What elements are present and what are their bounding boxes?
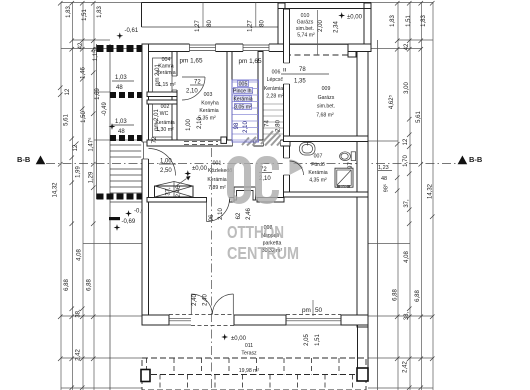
svg-text:pm 1,65: pm 1,65 [179, 58, 203, 65]
watermark OC logo [231, 160, 248, 201]
tick marks left [58, 1, 96, 390]
svg-text:14,32: 14,32 [428, 183, 434, 199]
svg-text:2,46: 2,46 [176, 185, 182, 197]
svg-text:CENTRUM: CENTRUM [227, 243, 299, 263]
svg-text:97: 97 [348, 162, 354, 169]
terrace paving joints row 1 [147, 358, 340, 375]
stair direction arrow [176, 179, 187, 187]
svg-text:2,10: 2,10 [218, 208, 224, 220]
svg-text:1,51: 1,51 [315, 334, 321, 346]
svg-text:2,05: 2,05 [304, 334, 310, 346]
svg-text:6,88: 6,88 [415, 290, 421, 302]
svg-text:Kerámia: Kerámia [233, 96, 252, 102]
wall end block at Konyha corner [221, 137, 227, 143]
window dim line 1 (1,27/80) [202, 3, 204, 28]
svg-text:2,34: 2,34 [334, 21, 340, 33]
svg-text:Kerámia: Kerámia [199, 108, 218, 114]
garage door dashed (sectional door above) [285, 54, 348, 56]
svg-text:96: 96 [209, 214, 215, 221]
extension lines right [371, 2, 433, 4]
Kamra bottom partition [147, 92, 177, 97]
svg-text:98: 98 [234, 122, 240, 129]
svg-text:1,83: 1,83 [66, 6, 72, 18]
svg-text:3,00: 3,00 [404, 82, 410, 94]
svg-text:007: 007 [314, 154, 323, 160]
svg-text:80: 80 [260, 20, 266, 27]
svg-text:pm 2,01: pm 2,01 [155, 64, 161, 86]
svg-text:38,: 38, [76, 309, 82, 318]
window opening top 2 [243, 43, 269, 52]
svg-text:2,28 m²: 2,28 m² [266, 94, 284, 100]
garage 009 door opening in top wall [286, 44, 348, 52]
tick marks right [395, 1, 435, 390]
svg-text:001: 001 [213, 161, 222, 167]
blue selection box 005 [232, 80, 259, 142]
svg-text:48: 48 [381, 176, 387, 182]
svg-text:2,46: 2,46 [246, 208, 252, 220]
svg-text:1,03: 1,03 [115, 119, 127, 125]
svg-text:5,61: 5,61 [416, 111, 422, 123]
005 labels (selected blue) [233, 81, 253, 111]
svg-text:B-B: B-B [17, 155, 31, 164]
partition Lépcső | Garázs 009 [284, 9, 290, 197]
svg-text:1,27: 1,27 [195, 20, 201, 32]
terrace door swings (double) [190, 294, 192, 315]
boundary extension line right of house [377, 40, 379, 390]
svg-text:5,74 m²: 5,74 m² [297, 33, 315, 39]
svg-text:37,: 37, [166, 187, 172, 196]
svg-text:1,00: 1,00 [160, 159, 172, 165]
svg-text:Kerámia: Kerámia [308, 170, 327, 176]
svg-text:002: 002 [161, 104, 170, 110]
svg-text:OTTHON: OTTHON [227, 222, 284, 242]
staircase up (X box) [155, 186, 194, 197]
svg-text:Kerámia: Kerámia [264, 86, 283, 92]
svg-text:1,69: 1,69 [95, 88, 101, 100]
svg-text:2,42: 2,42 [403, 361, 409, 373]
room 002 WC box [153, 104, 173, 137]
partition 005 | Lépcső [258, 52, 263, 147]
svg-text:-0,49: -0,49 [102, 102, 108, 116]
svg-text:42: 42 [404, 43, 410, 50]
blue stair treads 005 [233, 82, 259, 140]
level ±0,00 terrace [221, 334, 228, 341]
svg-text:Garázs: Garázs [318, 95, 335, 101]
window band right [286, 318, 341, 325]
terrace right pillar [357, 368, 368, 381]
svg-text:006: 006 [272, 70, 281, 76]
svg-text:12: 12 [65, 88, 71, 95]
svg-text:1,99: 1,99 [76, 166, 82, 178]
svg-text:2,00: 2,00 [318, 20, 324, 32]
dimension chain lines right [397, 3, 399, 390]
vertical section line through plan [211, 148, 213, 390]
svg-text:011: 011 [245, 343, 253, 349]
svg-text:37,: 37, [404, 199, 410, 208]
garage 009 / Fürdő top wall [284, 136, 369, 142]
Fürdő toilet [340, 152, 356, 161]
svg-text:74: 74 [265, 120, 271, 127]
svg-text:±0,00: ±0,00 [192, 166, 208, 172]
svg-text:48: 48 [118, 129, 125, 135]
svg-text:Garázs: Garázs [297, 20, 314, 26]
corridor front wall [147, 140, 290, 146]
room 004 Kamra closet box [153, 58, 173, 92]
svg-text:2,40: 2,40 [203, 294, 209, 306]
svg-text:Konyha: Konyha [201, 101, 219, 107]
svg-text:Terasz: Terasz [241, 351, 257, 357]
outdoor stair treads [110, 145, 142, 193]
Fürdő bottom wall [284, 192, 369, 197]
svg-text:-0,61: -0,61 [125, 28, 139, 34]
section marker right B-B [458, 156, 468, 165]
svg-text:4,08: 4,08 [77, 249, 83, 261]
canopy edge line [142, 26, 279, 28]
svg-text:003: 003 [204, 92, 213, 98]
svg-text:1,29: 1,29 [89, 171, 95, 183]
main top wall [142, 44, 371, 52]
Fürdő washbasin [300, 142, 316, 156]
level -0,65 [125, 210, 132, 217]
nappali door from corridor [206, 199, 208, 222]
svg-text:72: 72 [152, 136, 158, 143]
Lépcső stair treads [264, 104, 284, 134]
svg-text:6,88: 6,88 [87, 279, 93, 291]
garage 010 walls [278, 3, 285, 49]
svg-text:5,61: 5,61 [64, 114, 70, 126]
svg-text:1,51: 1,51 [406, 15, 412, 27]
terrace paving outline [142, 358, 366, 390]
Nappali bottom wall: left pillar [142, 315, 169, 325]
svg-text:1,23: 1,23 [378, 165, 389, 171]
terrace left pillar [141, 370, 150, 382]
svg-text:2,42: 2,42 [76, 349, 82, 361]
svg-text:12: 12 [73, 144, 79, 151]
svg-text:2,10: 2,10 [186, 89, 198, 95]
svg-text:48: 48 [116, 85, 123, 91]
svg-text:1,00: 1,00 [186, 119, 192, 131]
partition Konyha | 005 [227, 52, 232, 147]
svg-text:80: 80 [207, 20, 213, 27]
outdoor side-stair enclosure lines [96, 44, 98, 199]
Fürdő shower [335, 168, 353, 187]
svg-text:1,83: 1,83 [97, 6, 103, 18]
section line B-B [46, 163, 456, 165]
svg-text:1,46: 1,46 [81, 67, 87, 79]
partition Kamra/WC | Konyha [172, 52, 177, 147]
dashed retaining wall bands [97, 45, 143, 52]
svg-text:±0,00: ±0,00 [347, 15, 363, 21]
Konyha bottom dashed counter [184, 142, 218, 145]
svg-text:WC: WC [160, 111, 169, 117]
wall stub below stair [109, 217, 120, 220]
dimension chain lines left [60, 3, 62, 390]
svg-text:B-B: B-B [469, 155, 483, 164]
svg-text:1,70: 1,70 [403, 155, 409, 167]
svg-text:2,50: 2,50 [160, 168, 172, 174]
svg-text:12: 12 [403, 138, 409, 145]
right wall continuation to terrace [357, 325, 359, 369]
left exterior wall [142, 44, 149, 316]
svg-text:90x90: 90x90 [340, 185, 348, 189]
svg-text:1,83: 1,83 [421, 15, 427, 27]
svg-text:72: 72 [194, 80, 201, 86]
wall jog right of garage door [348, 44, 356, 57]
svg-text:98⁵: 98⁵ [383, 184, 390, 192]
svg-text:2,40: 2,40 [192, 294, 198, 306]
window band left [169, 318, 191, 325]
svg-text:Pince lh.: Pince lh. [233, 88, 253, 94]
svg-text:2,10: 2,10 [243, 121, 249, 133]
svg-text:004: 004 [162, 57, 171, 63]
svg-text:4,35 m²: 4,35 m² [309, 178, 327, 184]
svg-text:1,47⁶: 1,47⁶ [88, 137, 95, 152]
garage dim line vertical [317, 10, 319, 55]
Fürdő door opening [283, 158, 291, 175]
svg-text:6,88: 6,88 [64, 279, 70, 291]
svg-text:010: 010 [301, 13, 310, 19]
Fürdő door swing [290, 160, 304, 176]
svg-text:sim.bet.: sim.bet. [317, 104, 335, 110]
svg-text:4,08: 4,08 [404, 251, 410, 263]
svg-text:009: 009 [322, 86, 331, 92]
svg-text:14,32: 14,32 [53, 182, 59, 198]
level -0,61 [116, 32, 123, 39]
svg-text:6,88: 6,88 [393, 289, 399, 301]
svg-text:7,89 m²: 7,89 m² [208, 185, 226, 191]
svg-text:1,03: 1,03 [115, 75, 127, 81]
svg-text:4,62⁵: 4,62⁵ [388, 94, 395, 109]
room 001 Közlekedő labels [184, 170, 191, 177]
right exterior wall [357, 52, 368, 328]
svg-text:50: 50 [315, 307, 323, 314]
svg-text:3,05 m²: 3,05 m² [234, 104, 252, 110]
middle pier [234, 315, 286, 325]
site outline top [142, 2, 372, 4]
terrace paving joints row 2 [160, 375, 353, 390]
svg-text:Fürdő: Fürdő [311, 162, 325, 168]
svg-text:78: 78 [299, 67, 306, 73]
svg-text:1,35: 1,35 [294, 79, 306, 85]
entry door swing 001 [149, 149, 176, 176]
svg-text:42: 42 [78, 42, 84, 49]
WC top partition [147, 100, 177, 104]
svg-text:2,10: 2,10 [197, 117, 203, 129]
svg-text:1,27: 1,27 [248, 20, 254, 32]
svg-text:±0,00: ±0,00 [231, 336, 247, 342]
svg-text:005: 005 [239, 81, 248, 87]
svg-text:pm 2,01: pm 2,01 [154, 109, 160, 131]
Nappali top wall [147, 198, 207, 203]
svg-text:1,51: 1,51 [82, 9, 88, 21]
svg-text:62: 62 [236, 212, 242, 219]
svg-text:38,: 38, [404, 311, 410, 320]
opening 005 stair door [233, 139, 254, 147]
window dim line 2 (1,27/80) [255, 3, 257, 28]
level ±0,00 garage [338, 12, 345, 19]
svg-text:1,50: 1,50 [81, 111, 87, 123]
section hatch above stair (005/Lépcső bottom) [242, 131, 281, 146]
opening Lépcső door (74/2,80) [264, 139, 281, 147]
garage 009 door opening in wall [283, 63, 291, 84]
window opening top 1 [190, 43, 216, 52]
level -0,69 [114, 224, 121, 231]
svg-text:1,83: 1,83 [390, 15, 396, 27]
Kamra door opening in partition [171, 76, 178, 90]
svg-text:sim.bet.: sim.bet. [296, 26, 314, 32]
svg-text:pm: pm [302, 307, 311, 314]
svg-text:7,68 m²: 7,68 m² [316, 113, 334, 119]
svg-text:-0,69: -0,69 [122, 219, 136, 225]
svg-text:Kerámia: Kerámia [207, 177, 226, 183]
svg-text:2,80: 2,80 [276, 120, 282, 132]
door opening left wall (001 entry) [141, 142, 149, 159]
right pillar [341, 315, 368, 325]
extension lines left [61, 2, 144, 4]
svg-text:Lépcső: Lépcső [267, 77, 284, 83]
svg-text:pm 1,65: pm 1,65 [238, 58, 262, 65]
Konyha door leaf and swing [182, 76, 205, 78]
chimney block [234, 187, 256, 200]
